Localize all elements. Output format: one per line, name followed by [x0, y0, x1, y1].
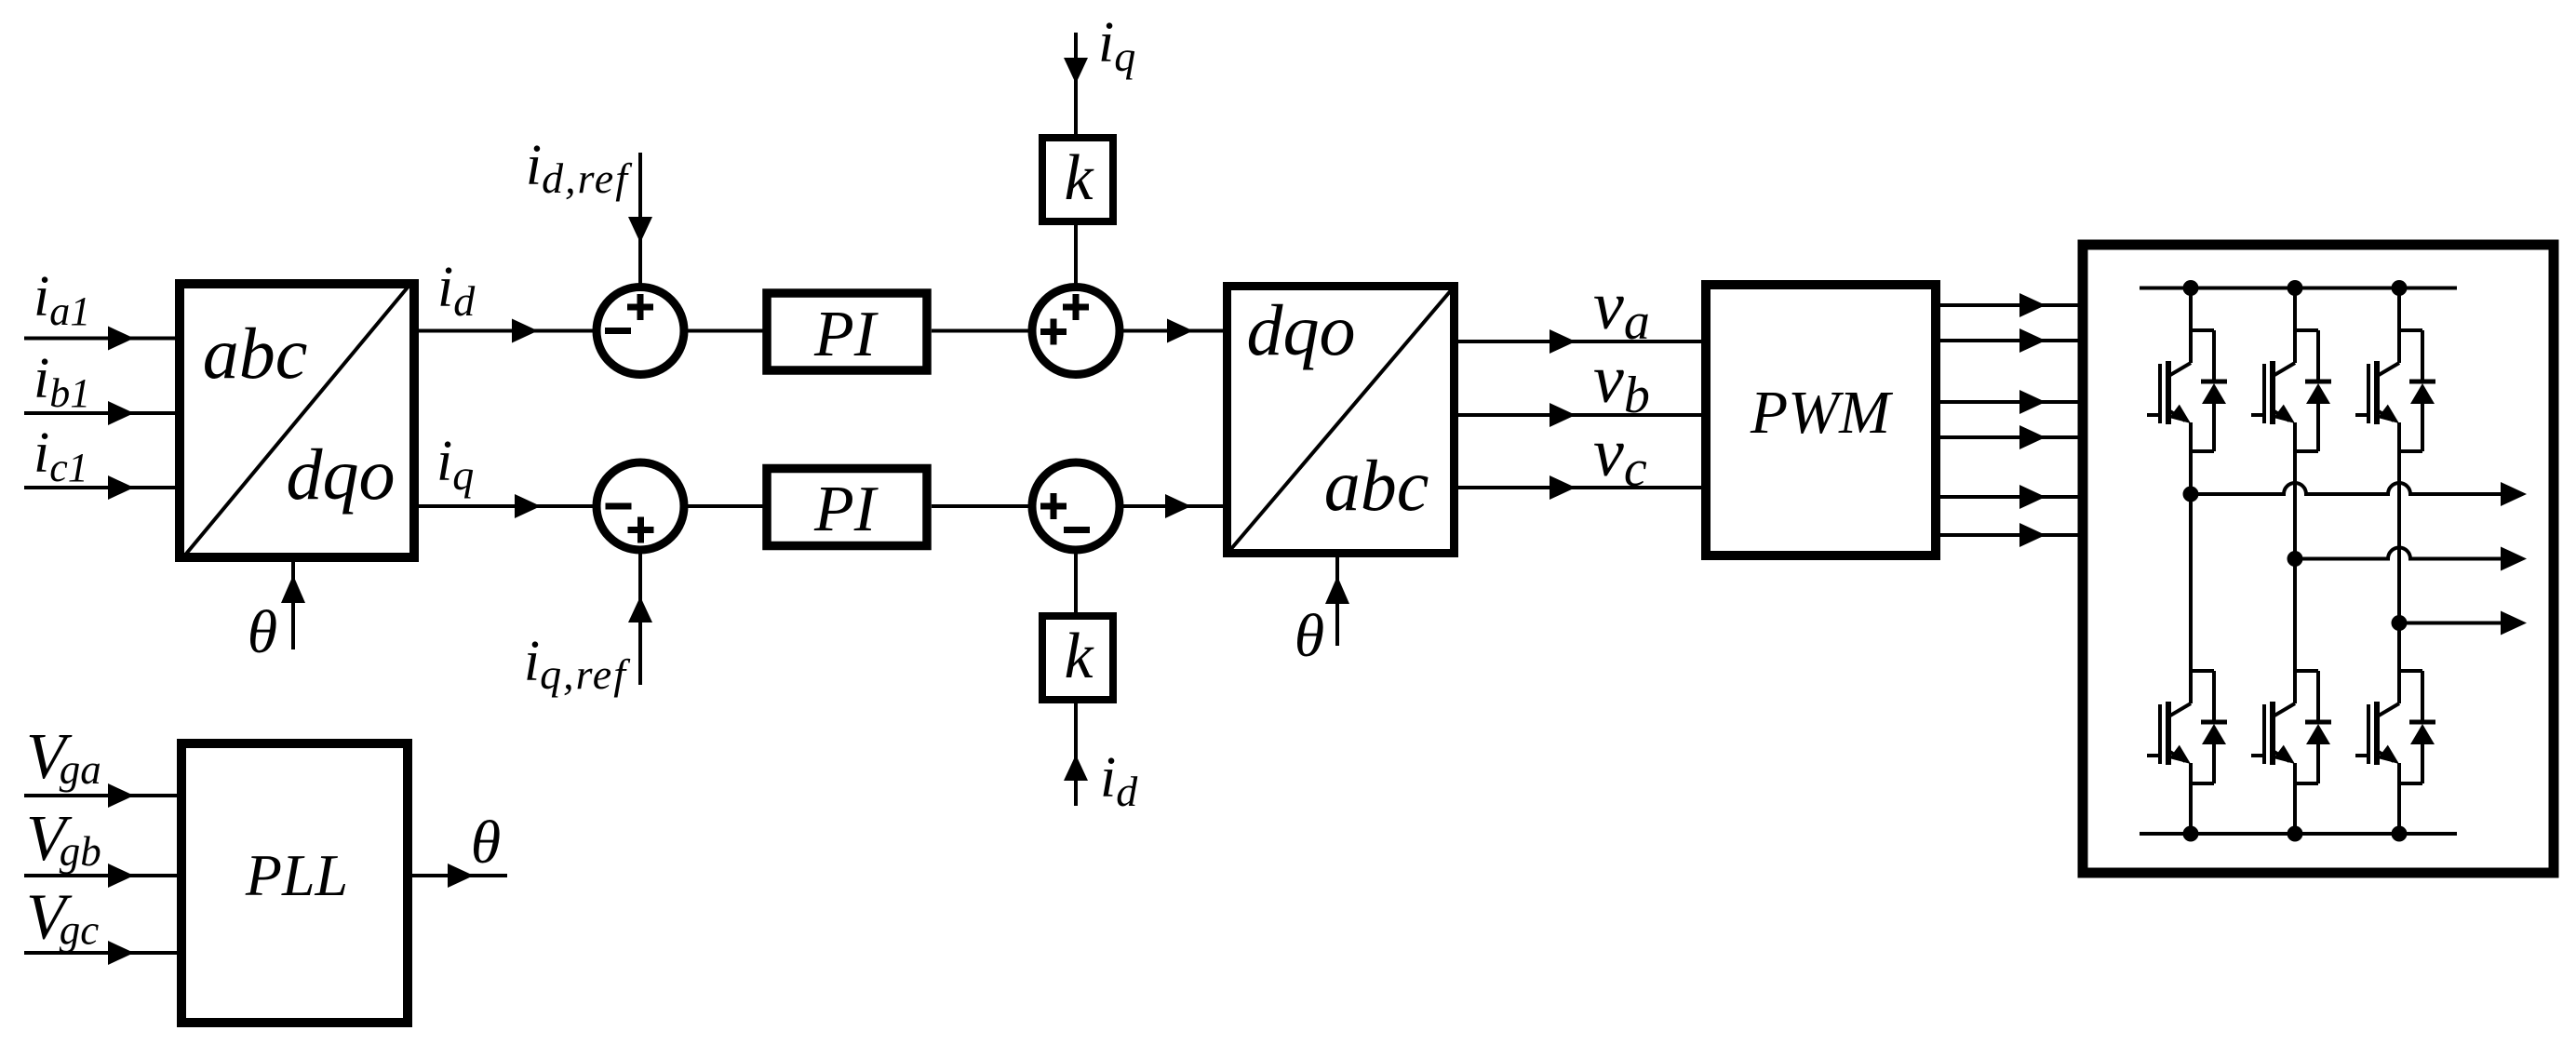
svg-text:vc: vc [1593, 415, 1647, 498]
wire emitter-diode join Q2 [2295, 449, 2318, 453]
wire emitter-diode join Q3 [2399, 449, 2422, 453]
svg-text:ib1: ib1 [34, 347, 90, 416]
wire diode D4 anode lead [2212, 744, 2216, 783]
wire input ib1 [24, 411, 178, 415]
block dqo/abc transform [1228, 287, 1455, 554]
IGBT Q3 emitter arrowhead [2378, 405, 2399, 423]
svg-text:Vga: Vga [26, 721, 101, 793]
summing junction S4 [1032, 462, 1120, 550]
wire emitter lead Q4 [2189, 763, 2193, 783]
junction dot bottom rail leg 3 [2392, 826, 2408, 842]
svg-text:PI: PI [813, 299, 879, 370]
IGBT Q3 gate bar [2367, 364, 2370, 423]
wire gate signal 3 [1940, 400, 2083, 404]
IGBT Q2 gate bar [2262, 364, 2266, 423]
IGBT Q5 body bar [2270, 702, 2275, 765]
arrowhead phase C [2501, 611, 2527, 636]
IGBT Q4 emitter arrowhead [2169, 745, 2191, 764]
wire gate signal 5 [1940, 495, 2083, 499]
IGBT Q5 collector stroke [2274, 703, 2295, 716]
wire diode D1 anode lead [2212, 404, 2216, 451]
wire collector lead Q3 [2397, 330, 2401, 363]
block abc/dqo transform [180, 284, 414, 557]
wire diode D6 cathode lead [2421, 671, 2424, 722]
summing junction S1 [597, 288, 684, 375]
svg-text:k: k [1064, 142, 1094, 214]
svg-text:Vgc: Vgc [26, 882, 99, 954]
wire gate signal 6 [1940, 533, 2083, 537]
wire emitter lead Q6 [2397, 763, 2401, 783]
wire collector lead Q2 [2293, 330, 2297, 363]
wire leg 1 upper emitter to phase node [2189, 451, 2193, 494]
wire vb to PWM [1458, 413, 1701, 417]
arrowhead ib1 [108, 401, 134, 425]
IGBT Q2 body bar [2270, 361, 2275, 424]
IGBT Q1 emitter arrowhead [2169, 405, 2191, 423]
wire diode D5 cathode lead [2316, 671, 2320, 722]
wire theta into dqo/abc [1335, 557, 1339, 646]
wire leg 3 upper emitter to phase node [2397, 451, 2401, 623]
minus sign S1 [605, 328, 631, 334]
IGBT Q6 emitter stroke [2377, 751, 2394, 761]
arrowhead gate signal 6 [2019, 523, 2046, 547]
wire iq from abc/dqo to sum3 [414, 504, 597, 508]
block PI1 [767, 293, 927, 370]
svg-text:abc: abc [203, 313, 308, 394]
wire leg 1 phase node to lower cell [2189, 494, 2193, 671]
wire leg 3 lower emitter to negative rail [2397, 783, 2401, 834]
IGBT Q1 emitter stroke [2168, 410, 2185, 421]
svg-text:iq,ref: iq,ref [524, 630, 631, 698]
svg-text:vb: vb [1593, 341, 1650, 424]
summing junction S3 [597, 462, 684, 550]
arrowhead vb [1550, 403, 1576, 427]
IGBT Q1 collector stroke [2170, 363, 2191, 375]
wire phase C output [2399, 622, 2503, 625]
diode D3 triangle [2410, 383, 2435, 404]
wire S3 to PI2 [684, 504, 767, 508]
arrowhead S2 out [1167, 319, 1193, 343]
IGBT Q3 collector stroke [2379, 363, 2399, 375]
diode D3 cathode bar [2409, 380, 2435, 384]
IGBT Q4 gate bar [2158, 704, 2162, 764]
wire diode D2 anode lead [2316, 404, 2320, 451]
svg-text:θ: θ [248, 598, 277, 666]
wire collector branch Q2 [2295, 328, 2318, 332]
plus sign S2 top [1063, 294, 1089, 320]
wire leg 3 phase node to lower cell [2397, 623, 2401, 672]
diode D1 triangle [2202, 383, 2226, 404]
arrowhead ia1 [108, 327, 134, 351]
minus sign S3 [606, 503, 632, 510]
plus sign S2 left [1040, 319, 1067, 345]
svg-text:PWM: PWM [1750, 379, 1894, 447]
wire emitter-diode join Q5 [2295, 782, 2318, 785]
svg-text:PI: PI [813, 474, 879, 545]
wire diode D2 cathode lead [2316, 330, 2320, 381]
junction dot top rail leg 1 [2183, 280, 2199, 296]
arrowhead iq top [1064, 58, 1088, 84]
wire leg 1 lower emitter to negative rail [2189, 783, 2193, 834]
wire PI2 to S4 [932, 504, 1032, 508]
arrowhead S4 out [1165, 494, 1191, 518]
IGBT Q4 body bar [2166, 702, 2171, 765]
wire diode D1 cathode lead [2212, 330, 2216, 381]
wire emitter-diode join Q6 [2399, 782, 2422, 785]
wire id into k2 [1074, 703, 1078, 806]
wire collector branch Q6 [2399, 669, 2422, 673]
wire emitter lead Q2 [2293, 422, 2297, 451]
arrowhead iq,ref [628, 596, 652, 622]
wire phase B output with crossover hop [2295, 548, 2503, 559]
wire input ic1 [24, 486, 178, 489]
arrowhead gate signal 5 [2019, 485, 2046, 509]
svg-text:iq: iq [1098, 11, 1135, 80]
diode D2 triangle [2306, 383, 2330, 404]
arrowhead gate signal 4 [2019, 425, 2046, 449]
arrowhead va [1550, 329, 1576, 354]
wire collector branch Q1 [2191, 328, 2214, 332]
svg-text:θ: θ [1295, 602, 1324, 670]
svg-text:dqo: dqo [287, 434, 396, 515]
plus sign S3 [628, 517, 654, 543]
wire collector lead Q5 [2293, 671, 2297, 703]
wire theta into abc/dqo [291, 560, 295, 649]
wire collector lead Q4 [2189, 671, 2193, 703]
arrowhead phase B [2501, 547, 2527, 571]
block k1 [1042, 138, 1113, 221]
IGBT Q6 gate lead [2355, 754, 2368, 757]
IGBT Q4 emitter stroke [2168, 751, 2185, 761]
IGBT Q2 emitter stroke [2273, 410, 2289, 421]
IGBT Q3 emitter stroke [2377, 410, 2394, 421]
diode D4 cathode bar [2201, 720, 2227, 725]
IGBT Q3 gate lead [2355, 413, 2368, 417]
wire collector lead Q1 [2189, 330, 2193, 363]
arrowhead iq wire [515, 494, 541, 518]
arrowhead theta dqo/abc [1325, 576, 1349, 604]
IGBT Q2 gate lead [2251, 413, 2264, 417]
IGBT Q5 gate bar [2262, 704, 2266, 764]
wire leg 2 lower emitter to negative rail [2293, 783, 2297, 834]
svg-text:PLL: PLL [245, 842, 348, 908]
IGBT Q5 emitter arrowhead [2274, 745, 2295, 764]
IGBT Q6 gate bar [2367, 704, 2370, 764]
junction dot phase node c [2392, 615, 2408, 631]
IGBT Q6 emitter arrowhead [2378, 745, 2399, 764]
wire input Vgb [24, 874, 177, 877]
wire leg 2 upper collector drop [2293, 288, 2297, 331]
wire k1 to S2 [1074, 225, 1078, 288]
wire input ia1 [24, 337, 178, 341]
block k2 [1042, 616, 1113, 700]
IGBT Q6 collector stroke [2379, 703, 2399, 716]
wire diode D5 anode lead [2316, 744, 2320, 783]
DC negative rail [2140, 832, 2457, 836]
arrowhead gate signal 2 [2019, 328, 2046, 353]
arrowhead id wire [512, 319, 538, 343]
wire input Vga [24, 794, 177, 797]
wire emitter lead Q1 [2189, 422, 2193, 451]
block PI2 [767, 469, 927, 546]
arrowhead theta out [448, 863, 474, 888]
IGBT Q4 gate lead [2147, 754, 2160, 757]
wire id,ref into S1 [638, 153, 642, 287]
wire collector branch Q3 [2399, 328, 2422, 332]
IGBT Q2 collector stroke [2274, 363, 2295, 375]
wire leg 1 upper collector drop [2189, 288, 2193, 331]
wire emitter-diode join Q1 [2191, 449, 2214, 453]
wire gate signal 2 [1940, 339, 2083, 342]
svg-text:ic1: ic1 [34, 422, 88, 490]
DC positive rail [2140, 287, 2457, 290]
wire collector branch Q4 [2191, 669, 2214, 673]
junction dot phase node a [2183, 487, 2199, 502]
block dqo/abc diagonal [1230, 289, 1452, 550]
arrowhead Vgc [108, 941, 134, 965]
IGBT Q4 collector stroke [2170, 703, 2191, 716]
IGBT Q1 gate bar [2158, 364, 2162, 423]
block PLL [181, 743, 408, 1023]
svg-text:dqo: dqo [1247, 289, 1356, 370]
svg-text:k: k [1064, 621, 1094, 692]
wire gate signal 4 [1940, 435, 2083, 439]
block abc/dqo diagonal [182, 283, 411, 558]
wire leg 2 phase node to lower cell [2293, 559, 2297, 672]
IGBT Q5 emitter stroke [2273, 751, 2289, 761]
wire S4 to k2 [1074, 550, 1078, 612]
diode D4 triangle [2202, 724, 2226, 744]
diode D5 cathode bar [2305, 720, 2331, 725]
IGBT Q5 gate lead [2251, 754, 2264, 757]
IGBT Q1 gate lead [2147, 413, 2160, 417]
arrowhead gate signal 3 [2019, 390, 2046, 414]
junction dot top rail leg 3 [2392, 280, 2408, 296]
wire S4 to dqo/abc [1120, 504, 1223, 508]
svg-text:va: va [1593, 268, 1650, 351]
svg-text:θ: θ [471, 809, 501, 877]
wire leg 3 upper collector drop [2397, 288, 2401, 331]
wire gate signal 1 [1940, 303, 2083, 307]
junction dot bottom rail leg 2 [2288, 826, 2303, 842]
wire leg 2 upper emitter to phase node [2293, 451, 2297, 559]
diode D1 cathode bar [2201, 380, 2227, 384]
svg-text:iq: iq [436, 430, 474, 499]
svg-text:id: id [1100, 746, 1138, 815]
diode D6 cathode bar [2409, 720, 2435, 725]
arrowhead vc [1550, 475, 1576, 500]
IGBT Q3 body bar [2374, 361, 2380, 424]
wire emitter lead Q5 [2293, 763, 2297, 783]
minus sign S4 [1064, 527, 1090, 533]
arrowhead ic1 [108, 475, 134, 500]
block PWM [1706, 285, 1936, 555]
diode D2 cathode bar [2305, 380, 2331, 384]
wire theta out of PLL [412, 874, 507, 877]
svg-text:id: id [437, 256, 476, 325]
wire va to PWM [1458, 340, 1701, 343]
arrowhead Vga [108, 783, 134, 808]
svg-text:abc: abc [1324, 445, 1429, 526]
IGBT Q2 emitter arrowhead [2274, 405, 2295, 423]
arrowhead phase A [2501, 482, 2527, 506]
junction dot phase node b [2288, 551, 2303, 567]
junction dot top rail leg 2 [2288, 280, 2303, 296]
arrowhead theta abc/dqo [281, 575, 305, 603]
plus sign S4 left [1040, 493, 1067, 519]
wire diode D6 anode lead [2421, 744, 2424, 783]
wire S1 to PI1 [684, 329, 767, 333]
wire diode D3 anode lead [2421, 404, 2424, 451]
IGBT Q1 body bar [2166, 361, 2171, 424]
block inverter bridge outline [2083, 245, 2554, 873]
wire iq,ref into S3 [638, 550, 642, 685]
wire input Vgc [24, 951, 177, 955]
junction dot bottom rail leg 1 [2183, 826, 2199, 842]
arrowhead gate signal 1 [2019, 293, 2046, 317]
diode D5 triangle [2306, 724, 2330, 744]
svg-text:id,ref: id,ref [526, 134, 633, 202]
arrowhead Vgb [108, 863, 134, 888]
summing junction S2 [1032, 288, 1120, 375]
wire emitter-diode join Q4 [2191, 782, 2214, 785]
IGBT Q6 body bar [2374, 702, 2380, 765]
wire iq into k1 [1074, 33, 1078, 134]
plus sign S1 [627, 294, 653, 320]
wire id from abc/dqo to sum1 [414, 329, 596, 333]
arrowhead id bottom [1064, 755, 1088, 781]
wire collector branch Q5 [2295, 669, 2318, 673]
wire emitter lead Q3 [2397, 422, 2401, 451]
svg-text:Vgb: Vgb [26, 803, 101, 875]
diode D6 triangle [2410, 724, 2435, 744]
arrowhead id,ref [628, 217, 652, 243]
wire PI1 to S2 [932, 329, 1032, 333]
wire vc to PWM [1458, 486, 1701, 489]
wire S2 to dqo/abc [1120, 329, 1223, 333]
wire diode D3 cathode lead [2421, 330, 2424, 381]
wire collector lead Q6 [2397, 671, 2401, 703]
svg-text:ia1: ia1 [34, 265, 90, 334]
wire phase A output with crossover hops [2191, 483, 2503, 494]
wire diode D4 cathode lead [2212, 671, 2216, 722]
